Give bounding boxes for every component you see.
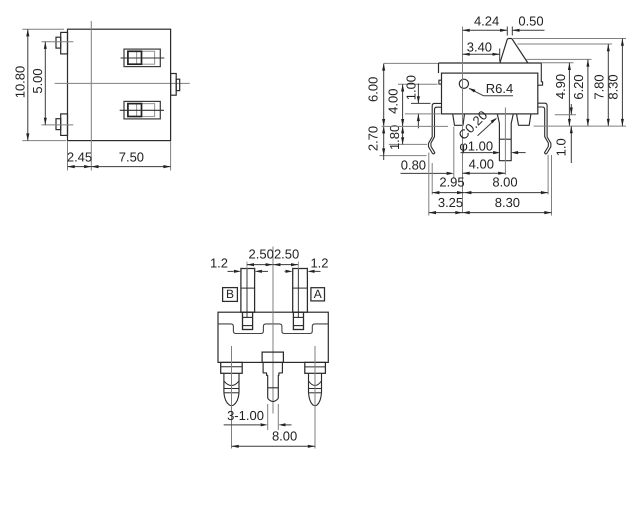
- svg-text:4.90: 4.90: [553, 74, 568, 99]
- side view upper contact slot: [121, 49, 165, 67]
- svg-text:0.50: 0.50: [518, 14, 543, 29]
- svg-text:6.00: 6.00: [365, 77, 380, 102]
- svg-text:7.50: 7.50: [119, 149, 144, 164]
- front view left leg bracket: [429, 103, 442, 154]
- dimension 8.30 bottom: [463, 155, 552, 216]
- dimension 7.80: [518, 44, 613, 126]
- svg-text:8.00: 8.00: [492, 174, 517, 189]
- bottom view center pin: [263, 362, 282, 401]
- svg-text:φ1.00: φ1.00: [459, 138, 493, 153]
- dimension 0.50: [512, 14, 544, 36]
- bottom view terminal B strip: [241, 262, 255, 318]
- label R6.4 with leader: [468, 81, 513, 96]
- svg-text:1.00: 1.00: [404, 75, 419, 100]
- dimension 1.0 right foot: [553, 104, 576, 163]
- bottom view right pin: [309, 346, 322, 449]
- dimension 4.90: [542, 63, 574, 126]
- dimension 3.25: [429, 153, 463, 216]
- side view vertical centerline: [90, 21, 92, 171]
- dimension 2.95: [432, 163, 464, 195]
- svg-text:4.24: 4.24: [474, 14, 499, 29]
- dimension 4.00 bottom: [463, 108, 506, 175]
- bottom view centerline: [272, 247, 274, 414]
- front view body rectangle: [442, 73, 538, 114]
- dimension 3-1.00: [224, 404, 292, 430]
- front view housing right edge and notch: [538, 63, 543, 85]
- bottom view cavity contour: [218, 324, 328, 334]
- front view right mounting foot: [517, 114, 531, 125]
- dimension 2.50 right: [273, 247, 299, 267]
- front view right leg bracket: [538, 103, 551, 154]
- svg-text:10.80: 10.80: [12, 66, 27, 99]
- svg-text:0.80: 0.80: [401, 158, 426, 173]
- side view horizontal centerline: [55, 82, 190, 84]
- dimension 6.00: [365, 63, 438, 126]
- dimension 7.50: [91, 142, 170, 171]
- label A: [311, 287, 325, 301]
- svg-text:5.00: 5.00: [30, 68, 45, 93]
- svg-text:4.00: 4.00: [386, 89, 401, 114]
- dimension 1.80: [387, 125, 427, 150]
- bottom view slot A: [293, 312, 303, 329]
- svg-text:3.40: 3.40: [467, 40, 492, 55]
- side view lower contact slot: [120, 101, 164, 119]
- bottom view left collar: [221, 362, 243, 373]
- dimension 0.80: [401, 127, 454, 178]
- svg-text:3-1.00: 3-1.00: [227, 408, 264, 423]
- svg-text:1.2: 1.2: [210, 255, 228, 270]
- side view body: [68, 29, 171, 140]
- front view pivot hole: [459, 79, 468, 88]
- front view housing left edge: [438, 63, 440, 73]
- svg-text:2.50: 2.50: [274, 247, 299, 262]
- dimension 1.2 left: [210, 255, 268, 275]
- dimension 6.20: [526, 59, 592, 126]
- dimension 1.00 left: [404, 75, 441, 128]
- side view lower terminal pin: [42, 114, 74, 135]
- svg-text:1.80: 1.80: [387, 125, 402, 150]
- dimension 1.2 right: [285, 255, 329, 275]
- bottom view left pin: [224, 346, 239, 449]
- front view vertical reference line: [462, 27, 464, 214]
- front view lever: [500, 39, 528, 64]
- dimension 2.50 left: [247, 247, 274, 267]
- front view housing top edge: [439, 62, 542, 64]
- side view right actuator tab: [171, 74, 180, 96]
- svg-text:6.20: 6.20: [571, 74, 586, 99]
- dimension 4.24: [463, 14, 508, 36]
- svg-text:B: B: [226, 287, 234, 301]
- dimension 8.30 right: [513, 39, 626, 127]
- label C0.20 with leader: [455, 108, 497, 143]
- label B: [223, 287, 238, 301]
- dimension 8.00 front: [464, 155, 548, 195]
- dimension 3.40: [463, 40, 500, 62]
- svg-text:8.00: 8.00: [272, 428, 297, 443]
- dimension 8.00 bottom view: [232, 428, 316, 447]
- svg-text:1.0: 1.0: [553, 138, 568, 156]
- svg-text:R6.4: R6.4: [486, 81, 513, 96]
- front view left side tab: [439, 80, 442, 84]
- bottom view terminal A strip: [293, 262, 308, 318]
- svg-text:7.80: 7.80: [591, 74, 606, 99]
- dimension 4.00 left: [386, 84, 438, 126]
- dimension 2.70: [365, 126, 426, 160]
- dimension diameter 1.00 center pin: [459, 138, 525, 154]
- svg-text:8.30: 8.30: [495, 195, 520, 210]
- dimension 10.80: [12, 29, 66, 140]
- svg-text:8.30: 8.30: [606, 74, 621, 99]
- dimension 2.45: [67, 142, 92, 171]
- svg-text:2.50: 2.50: [249, 247, 274, 262]
- svg-text:3.25: 3.25: [438, 195, 463, 210]
- svg-text:2.45: 2.45: [67, 149, 92, 164]
- bottom view slot B: [243, 312, 253, 329]
- svg-text:A: A: [314, 287, 322, 301]
- bottom view body: [218, 312, 328, 362]
- dimension 5.00: [30, 42, 47, 125]
- front view center pin: [497, 114, 513, 161]
- front view left mounting foot: [453, 114, 465, 125]
- extension line feet bottom left: [382, 125, 449, 127]
- svg-text:2.95: 2.95: [439, 174, 464, 189]
- bottom view right collar: [305, 362, 326, 373]
- svg-text:1.2: 1.2: [310, 255, 328, 270]
- svg-text:4.00: 4.00: [469, 156, 494, 171]
- svg-text:2.70: 2.70: [365, 126, 380, 151]
- bottom view center boss: [262, 352, 283, 362]
- side view upper terminal pin: [42, 32, 74, 54]
